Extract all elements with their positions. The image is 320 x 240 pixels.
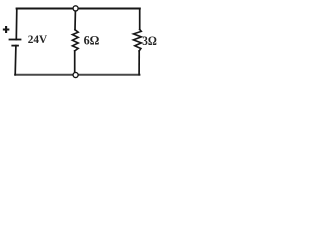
wire left upper (battery top lead) [15,9,18,40]
node B bottom circle [73,72,78,77]
wire middle upper [74,11,76,29]
wire left lower (battery bottom lead) [14,46,17,75]
battery V1 short plate [12,45,18,47]
node A top circle [73,6,78,11]
wire top [17,8,140,10]
wire middle lower [74,51,76,72]
battery V1 long plate [10,39,21,41]
wire right upper [139,9,141,30]
wire right lower [138,51,140,75]
svg-text:6Ω: 6Ω [84,33,100,47]
svg-text:3Ω: 3Ω [142,34,157,48]
wire bottom [15,74,139,76]
battery plus sign [4,27,8,32]
resistor R2 zigzag (3 ohm) [133,29,141,51]
svg-text:24V: 24V [28,33,48,46]
resistor R1 zigzag (6 ohm) [72,30,78,51]
